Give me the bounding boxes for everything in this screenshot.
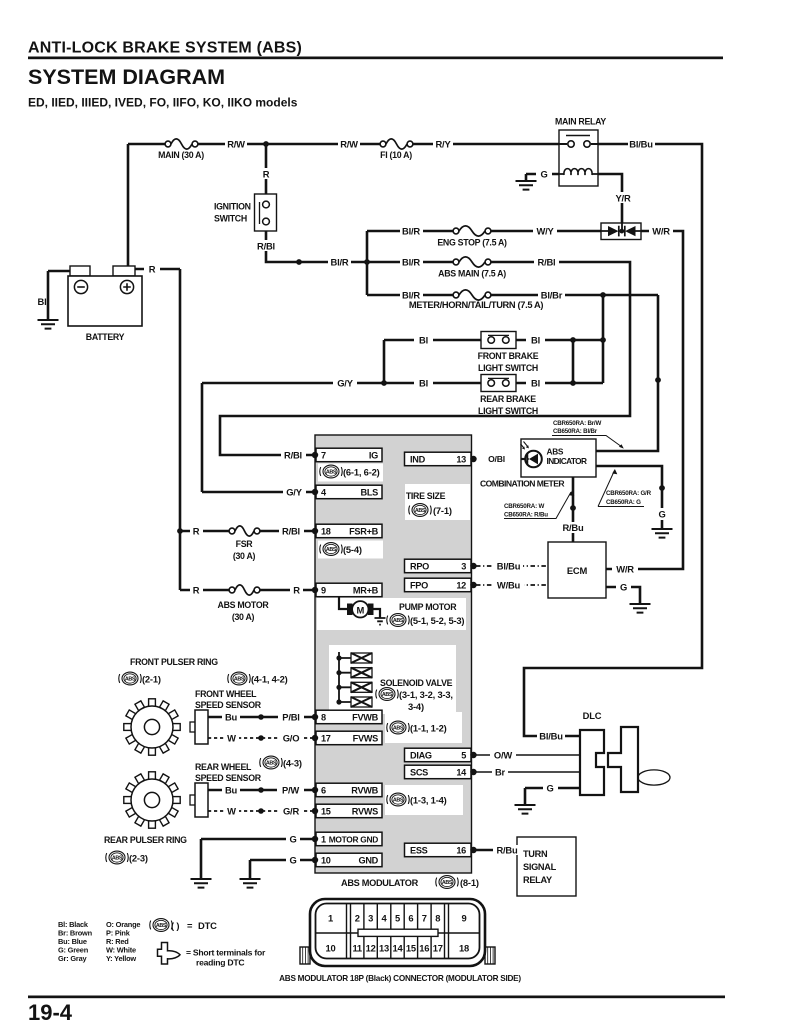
- svg-text:O/Bl: O/Bl: [488, 454, 505, 464]
- svg-text:FSR+B: FSR+B: [349, 527, 379, 537]
- svg-text:(5-4): (5-4): [343, 544, 362, 555]
- svg-text:W: W: [227, 733, 236, 744]
- svg-text:SOLENOID VALVE: SOLENOID VALVE: [380, 678, 453, 688]
- svg-text:BLS: BLS: [361, 488, 379, 498]
- svg-text:Y/R: Y/R: [615, 193, 630, 204]
- svg-text:P/W: P/W: [282, 785, 299, 796]
- svg-text:(3-1, 3-2, 3-3,: (3-1, 3-2, 3-3,: [399, 689, 453, 700]
- svg-text:(6-1, 6-2): (6-1, 6-2): [343, 467, 380, 478]
- svg-text:MOTOR GND: MOTOR GND: [329, 835, 379, 845]
- svg-text:15: 15: [321, 807, 331, 817]
- svg-text:(1-1, 1-2): (1-1, 1-2): [410, 723, 447, 734]
- svg-text:Bl: Bl: [38, 296, 47, 307]
- svg-text:(7-1): (7-1): [433, 505, 452, 516]
- svg-text:10: 10: [321, 856, 331, 866]
- svg-text:Bu: Bu: [225, 712, 238, 723]
- svg-text:3-4): 3-4): [408, 701, 424, 712]
- svg-text:RVWB: RVWB: [351, 786, 378, 796]
- svg-text:R: R: [193, 585, 200, 596]
- svg-text:ABS MAIN (7.5 A): ABS MAIN (7.5 A): [438, 269, 506, 279]
- svg-text:MAIN (30 A): MAIN (30 A): [158, 150, 204, 160]
- svg-text:SYSTEM DIAGRAM: SYSTEM DIAGRAM: [28, 65, 225, 89]
- svg-text:REAR BRAKE: REAR BRAKE: [480, 394, 536, 404]
- svg-text:Bl/Br: Bl/Br: [541, 290, 563, 301]
- svg-text:R/Bl: R/Bl: [284, 450, 302, 461]
- svg-text:SPEED SENSOR: SPEED SENSOR: [195, 700, 262, 710]
- svg-text:Bl/Bu: Bl/Bu: [497, 561, 521, 572]
- svg-text:9: 9: [321, 586, 326, 596]
- svg-text:7: 7: [422, 913, 427, 924]
- svg-text:8: 8: [321, 713, 326, 723]
- svg-text:FVWB: FVWB: [352, 713, 379, 723]
- svg-text:12: 12: [366, 943, 376, 954]
- svg-text:(5-1, 5-2, 5-3): (5-1, 5-2, 5-3): [410, 615, 464, 626]
- svg-text:G: G: [658, 509, 665, 520]
- svg-text:R/Bl: R/Bl: [257, 241, 275, 252]
- svg-text:W/R: W/R: [652, 226, 670, 237]
- svg-text:G/Y: G/Y: [337, 378, 353, 389]
- svg-text:CBR650RA: W: CBR650RA: W: [504, 503, 544, 510]
- svg-text:RVWS: RVWS: [352, 807, 378, 817]
- svg-text:CBR650RA: G/R: CBR650RA: G/R: [606, 490, 652, 497]
- svg-text:CB650RA: G: CB650RA: G: [606, 499, 641, 506]
- svg-text:FI (10 A): FI (10 A): [380, 150, 412, 160]
- svg-text:(1-3, 1-4): (1-3, 1-4): [410, 795, 447, 806]
- svg-text:Bl: Bl: [531, 335, 540, 346]
- svg-text:(2-3): (2-3): [129, 853, 148, 864]
- svg-text:ESS: ESS: [410, 846, 428, 856]
- svg-text:5: 5: [461, 751, 466, 761]
- svg-text:IND: IND: [410, 455, 426, 465]
- svg-text:R: R: [149, 264, 156, 275]
- svg-text:REAR WHEEL: REAR WHEEL: [195, 762, 252, 772]
- svg-text:R/Bl: R/Bl: [282, 526, 300, 537]
- svg-text:Bl/Bu: Bl/Bu: [539, 731, 563, 742]
- svg-text:CB650RA: Bl/Br: CB650RA: Bl/Br: [553, 428, 598, 435]
- svg-text:G/O: G/O: [283, 733, 300, 744]
- svg-text:SWITCH: SWITCH: [214, 214, 247, 224]
- svg-text:G: G: [620, 582, 627, 593]
- svg-text:ECM: ECM: [567, 565, 588, 576]
- svg-text:R/Y: R/Y: [435, 139, 451, 150]
- svg-text:O/W: O/W: [494, 750, 512, 761]
- svg-text:GND: GND: [358, 856, 378, 866]
- svg-text:3: 3: [461, 562, 466, 572]
- svg-text:11: 11: [352, 943, 362, 954]
- svg-text:TIRE SIZE: TIRE SIZE: [406, 491, 446, 501]
- svg-text:R: R: [263, 169, 270, 180]
- svg-text:CBR650RA: Br/W: CBR650RA: Br/W: [553, 420, 601, 427]
- svg-text:=: =: [187, 920, 193, 931]
- svg-text:SPEED SENSOR: SPEED SENSOR: [195, 773, 262, 783]
- svg-text:14: 14: [392, 943, 403, 954]
- svg-text:reading DTC: reading DTC: [196, 958, 244, 968]
- svg-text:SCS: SCS: [410, 768, 428, 778]
- svg-text:CB650RA: R/Bu: CB650RA: R/Bu: [504, 512, 548, 519]
- svg-text:(2-1): (2-1): [142, 674, 161, 685]
- svg-text:W/Y: W/Y: [536, 226, 554, 237]
- svg-text:FVWS: FVWS: [353, 734, 379, 744]
- svg-text:R: R: [193, 526, 200, 537]
- svg-text:7: 7: [321, 451, 326, 461]
- svg-text:16: 16: [419, 943, 429, 954]
- svg-text:DTC: DTC: [198, 920, 217, 931]
- svg-text:MAIN RELAY: MAIN RELAY: [555, 117, 606, 127]
- svg-text:G: G: [546, 783, 553, 794]
- svg-text:12: 12: [456, 581, 466, 591]
- svg-text:Bl: Bl: [419, 378, 428, 389]
- svg-text:G: G: [289, 834, 296, 845]
- svg-text:3: 3: [368, 913, 373, 924]
- svg-text:1: 1: [321, 835, 326, 845]
- svg-text:ABS MODULATOR 18P (Black) CONN: ABS MODULATOR 18P (Black) CONNECTOR (MOD…: [279, 974, 521, 983]
- svg-text:18: 18: [459, 943, 469, 954]
- svg-text:FSR: FSR: [236, 539, 254, 549]
- svg-text:FPO: FPO: [410, 581, 428, 591]
- svg-text:SIGNAL: SIGNAL: [523, 862, 557, 872]
- svg-text:DIAG: DIAG: [410, 751, 432, 761]
- svg-text:ENG STOP (7.5 A): ENG STOP (7.5 A): [437, 238, 507, 248]
- svg-text:LIGHT SWITCH: LIGHT SWITCH: [478, 406, 538, 416]
- svg-text:R/Bu: R/Bu: [562, 522, 584, 533]
- svg-text:Bl/Bu: Bl/Bu: [629, 139, 653, 150]
- svg-text:10: 10: [325, 943, 335, 954]
- svg-text:2: 2: [355, 913, 360, 924]
- svg-text:P/Bl: P/Bl: [282, 712, 299, 723]
- svg-text:16: 16: [456, 846, 466, 856]
- svg-text:17: 17: [321, 734, 331, 744]
- svg-text:COMBINATION METER: COMBINATION METER: [480, 479, 565, 489]
- svg-text:FRONT PULSER RING: FRONT PULSER RING: [130, 657, 218, 667]
- svg-text:14: 14: [456, 768, 467, 778]
- svg-text:W: W: [227, 806, 236, 817]
- svg-text:W/Bu: W/Bu: [497, 580, 521, 591]
- svg-text:Bl: Bl: [531, 378, 540, 389]
- svg-text:17: 17: [433, 943, 443, 954]
- svg-text:MR+B: MR+B: [353, 586, 379, 596]
- svg-text:15: 15: [406, 943, 416, 954]
- svg-text:Bl/R: Bl/R: [402, 226, 420, 237]
- svg-text:ABS MOTOR: ABS MOTOR: [218, 600, 270, 610]
- svg-text:R/Bu: R/Bu: [496, 845, 518, 856]
- svg-text:(4-1, 4-2): (4-1, 4-2): [251, 674, 288, 685]
- svg-text:9: 9: [461, 913, 466, 924]
- svg-text:R/W: R/W: [340, 139, 358, 150]
- svg-text:Bu: Bu: [225, 785, 238, 796]
- svg-text:Bl: Bl: [419, 335, 428, 346]
- svg-text:(8-1): (8-1): [460, 877, 479, 888]
- svg-text:R/W: R/W: [227, 139, 245, 150]
- svg-text:FRONT WHEEL: FRONT WHEEL: [195, 689, 257, 699]
- svg-text:8: 8: [435, 913, 440, 924]
- svg-text:FRONT BRAKE: FRONT BRAKE: [478, 351, 539, 361]
- svg-text:Gr: Gray: Gr: Gray: [58, 954, 87, 963]
- svg-text:PUMP MOTOR: PUMP MOTOR: [399, 602, 457, 612]
- svg-text:G/Y: G/Y: [286, 487, 302, 498]
- svg-text:Bl/R: Bl/R: [402, 257, 420, 268]
- svg-text:R: R: [293, 585, 300, 596]
- svg-text:ABS: ABS: [547, 447, 564, 457]
- svg-text:LIGHT SWITCH: LIGHT SWITCH: [478, 363, 538, 373]
- svg-text:6: 6: [408, 913, 413, 924]
- svg-text:G/R: G/R: [283, 806, 299, 817]
- svg-text:REAR PULSER RING: REAR PULSER RING: [104, 835, 187, 845]
- svg-text:(30 A): (30 A): [232, 612, 255, 622]
- svg-text:METER/HORN/TAIL/TURN (7.5 A): METER/HORN/TAIL/TURN (7.5 A): [409, 300, 544, 310]
- svg-text:ABS MODULATOR: ABS MODULATOR: [341, 878, 419, 888]
- svg-text:( ): ( ): [171, 920, 179, 931]
- svg-text:Bl/R: Bl/R: [331, 257, 349, 268]
- svg-text:Y: Yellow: Y: Yellow: [106, 954, 136, 963]
- svg-text:Br: Br: [495, 767, 506, 778]
- svg-text:RELAY: RELAY: [523, 875, 552, 885]
- svg-text:ED, IIED, IIIED, IVED, FO, IIF: ED, IIED, IIIED, IVED, FO, IIFO, KO, IIK…: [28, 96, 298, 110]
- svg-text:TURN: TURN: [523, 849, 548, 859]
- svg-text:= Short terminals for: = Short terminals for: [186, 948, 266, 958]
- svg-text:6: 6: [321, 786, 326, 796]
- svg-text:DLC: DLC: [583, 710, 602, 721]
- svg-text:13: 13: [379, 943, 389, 954]
- svg-text:M: M: [356, 605, 364, 616]
- svg-text:5: 5: [395, 913, 400, 924]
- svg-text:IGNITION: IGNITION: [214, 202, 251, 212]
- svg-text:Bl/R: Bl/R: [402, 290, 420, 301]
- svg-text:ANTI-LOCK BRAKE SYSTEM (ABS): ANTI-LOCK BRAKE SYSTEM (ABS): [28, 40, 302, 57]
- svg-text:R/Bl: R/Bl: [538, 257, 556, 268]
- svg-text:13: 13: [456, 455, 466, 465]
- svg-text:IG: IG: [369, 451, 378, 461]
- svg-text:(4-3): (4-3): [283, 758, 302, 769]
- svg-text:BATTERY: BATTERY: [86, 332, 125, 342]
- svg-text:18: 18: [321, 527, 331, 537]
- svg-text:1: 1: [328, 913, 333, 924]
- svg-text:RPO: RPO: [410, 562, 429, 572]
- svg-text:19-4: 19-4: [28, 1000, 73, 1025]
- svg-text:(30 A): (30 A): [233, 551, 256, 561]
- svg-text:G: G: [540, 169, 547, 180]
- svg-text:INDICATOR: INDICATOR: [547, 456, 588, 466]
- svg-text:G: G: [289, 855, 296, 866]
- svg-text:W/R: W/R: [616, 564, 634, 575]
